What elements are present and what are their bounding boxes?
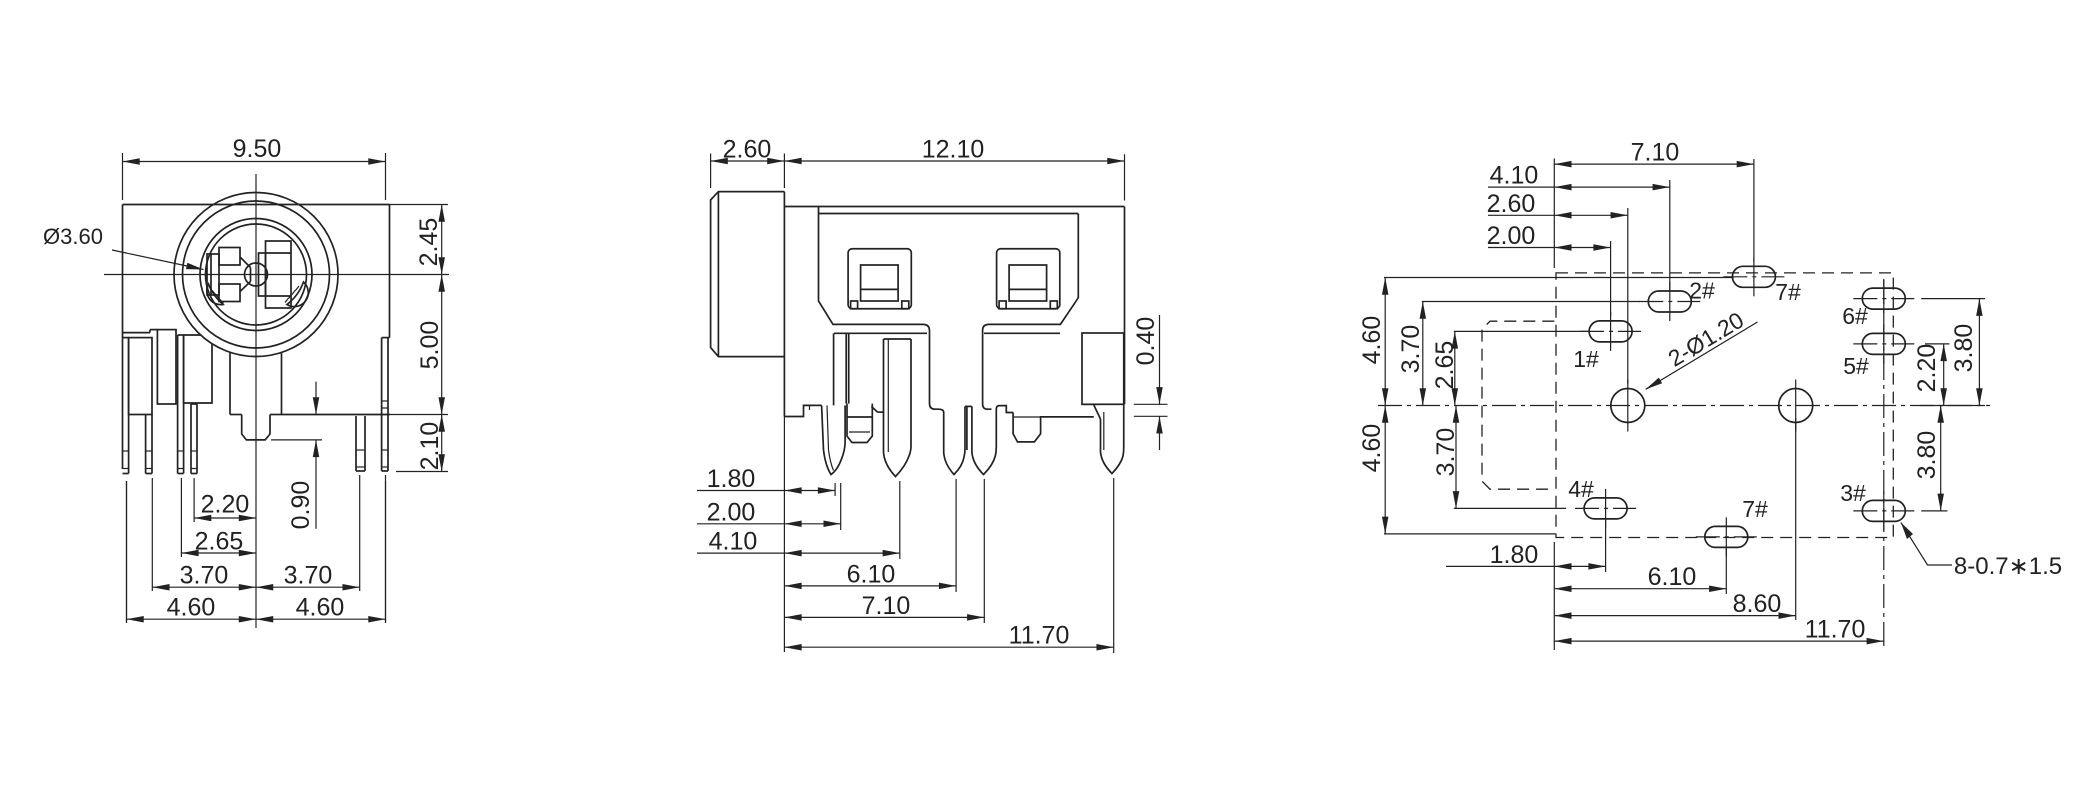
- svg-text:4.60: 4.60: [1358, 316, 1386, 365]
- svg-text:11.70: 11.70: [1009, 622, 1070, 650]
- svg-text:2.45: 2.45: [415, 218, 443, 267]
- svg-text:1#: 1#: [1573, 346, 1599, 372]
- svg-text:2.20: 2.20: [1913, 344, 1941, 393]
- svg-text:3.80: 3.80: [1950, 324, 1978, 373]
- svg-text:7.10: 7.10: [1631, 139, 1680, 167]
- svg-text:7#: 7#: [1775, 279, 1801, 305]
- svg-text:3.70: 3.70: [1397, 325, 1425, 374]
- svg-text:3#: 3#: [1840, 480, 1866, 506]
- svg-text:3.80: 3.80: [1913, 431, 1941, 480]
- svg-text:4.60: 4.60: [167, 594, 216, 622]
- svg-text:4.10: 4.10: [709, 528, 758, 556]
- svg-text:0.90: 0.90: [287, 481, 315, 530]
- svg-text:6#: 6#: [1842, 303, 1868, 329]
- svg-text:11.70: 11.70: [1805, 616, 1866, 644]
- svg-text:2.20: 2.20: [201, 491, 250, 519]
- svg-text:2.60: 2.60: [1487, 190, 1536, 218]
- svg-text:3.70: 3.70: [180, 562, 229, 590]
- svg-text:2.00: 2.00: [1487, 222, 1536, 250]
- svg-text:12.10: 12.10: [922, 136, 985, 164]
- svg-text:8-0.7∗1.5: 8-0.7∗1.5: [1954, 553, 2062, 580]
- svg-text:2.65: 2.65: [195, 528, 244, 556]
- svg-text:2.00: 2.00: [707, 498, 756, 526]
- svg-text:0.40: 0.40: [1132, 317, 1160, 366]
- svg-text:4.10: 4.10: [1490, 162, 1539, 190]
- svg-text:3.70: 3.70: [284, 562, 333, 590]
- svg-text:4.60: 4.60: [1358, 424, 1386, 473]
- svg-text:3.70: 3.70: [1432, 428, 1460, 477]
- svg-text:7#: 7#: [1742, 496, 1768, 522]
- svg-text:1.80: 1.80: [707, 465, 756, 493]
- svg-text:2.10: 2.10: [416, 422, 444, 471]
- svg-text:1.80: 1.80: [1490, 541, 1539, 569]
- svg-text:4#: 4#: [1568, 476, 1594, 502]
- svg-text:2.60: 2.60: [723, 136, 772, 164]
- svg-text:7.10: 7.10: [862, 592, 911, 620]
- svg-text:2#: 2#: [1689, 278, 1715, 304]
- svg-text:6.10: 6.10: [1648, 563, 1697, 591]
- svg-text:9.50: 9.50: [233, 135, 282, 163]
- svg-text:5#: 5#: [1843, 353, 1869, 379]
- svg-text:4.60: 4.60: [296, 594, 345, 622]
- svg-text:5.00: 5.00: [416, 321, 444, 370]
- svg-text:6.10: 6.10: [847, 560, 896, 588]
- svg-text:8.60: 8.60: [1733, 590, 1782, 618]
- svg-text:2.65: 2.65: [1431, 341, 1459, 390]
- svg-text:Ø3.60: Ø3.60: [43, 224, 103, 249]
